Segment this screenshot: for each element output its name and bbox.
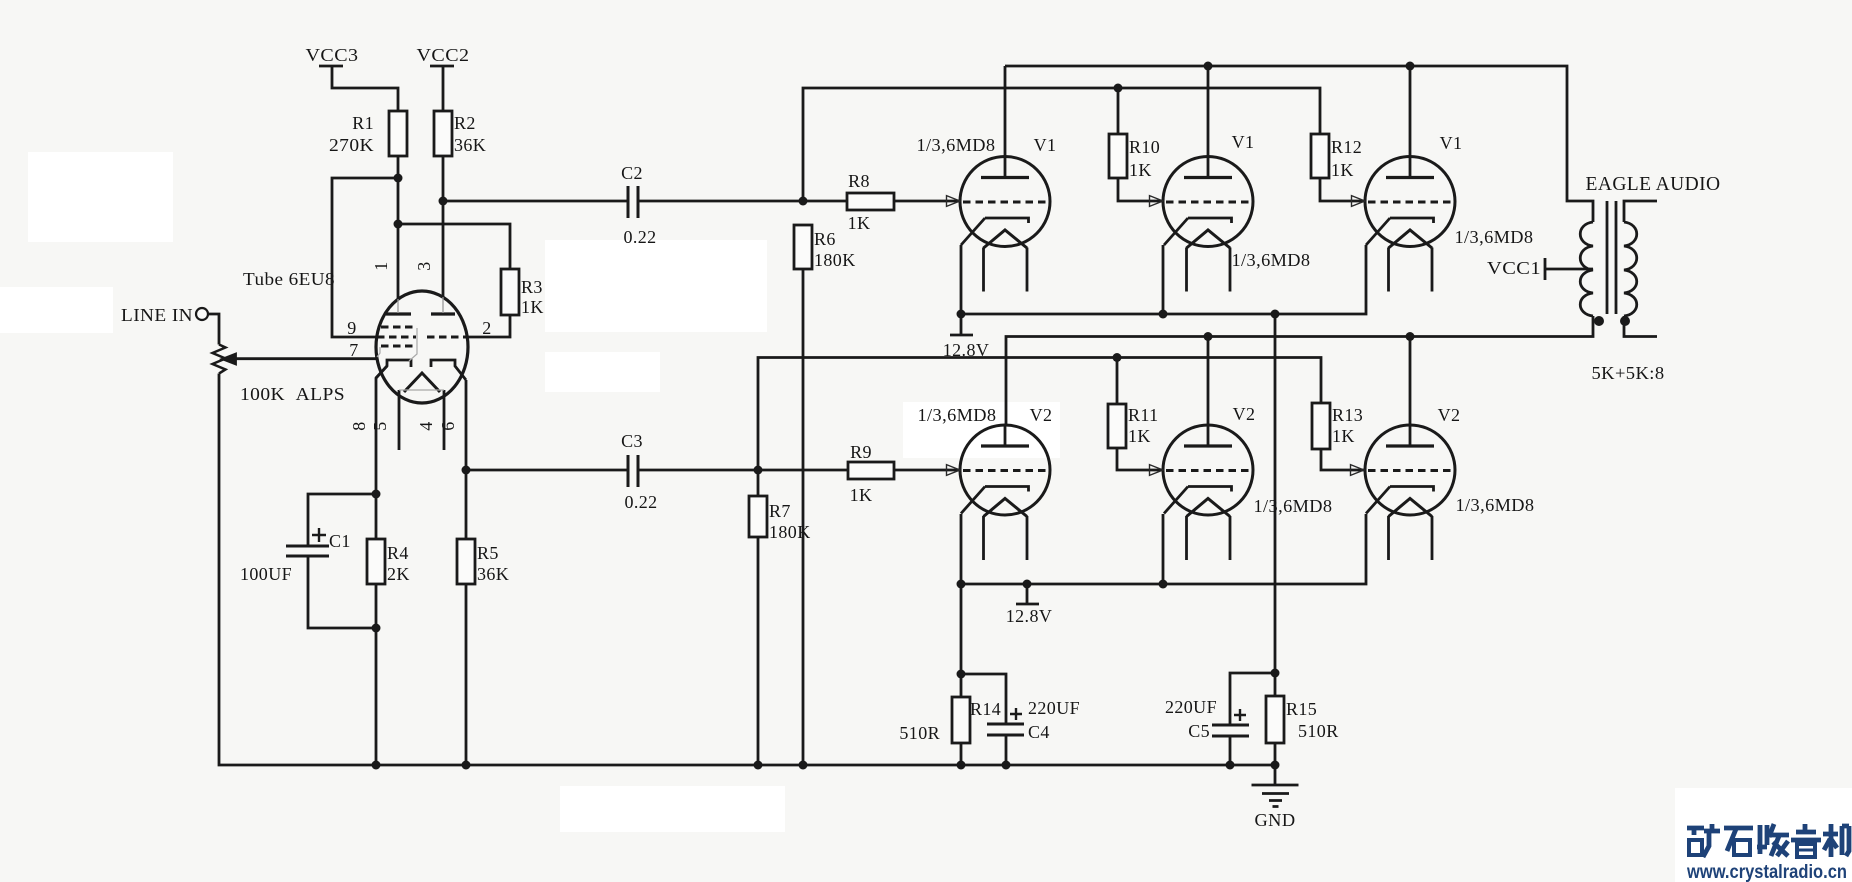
svg-text:R2: R2 bbox=[454, 113, 476, 133]
svg-text:5K+5K:8: 5K+5K:8 bbox=[1592, 363, 1665, 383]
watermark char kuang bbox=[1687, 828, 1704, 835]
svg-text:V2: V2 bbox=[1438, 405, 1461, 425]
wire V2b plate bbox=[1207, 337, 1210, 426]
wire C3 line bbox=[466, 469, 848, 472]
capacitor C1 plates bbox=[286, 546, 329, 556]
6EU8 pentode grid dashes bbox=[377, 327, 416, 346]
wire top grid bus bbox=[803, 88, 1320, 201]
svg-text:R1: R1 bbox=[352, 113, 374, 133]
svg-text:EAGLE AUDIO: EAGLE AUDIO bbox=[1586, 174, 1721, 195]
wire pin 8 to R4 bbox=[376, 366, 387, 494]
svg-text:12.8V: 12.8V bbox=[943, 340, 990, 360]
capacitor C4 plates bbox=[987, 724, 1024, 735]
grid arrow V2b bbox=[1150, 465, 1164, 476]
resistor R10 bbox=[1109, 134, 1127, 178]
svg-text:www.crystalradio.cn: www.crystalradio.cn bbox=[1686, 861, 1847, 882]
LINE IN terminal bbox=[196, 308, 208, 320]
svg-text:R7: R7 bbox=[769, 501, 791, 521]
resistor R14 bbox=[952, 697, 970, 743]
svg-text:R12: R12 bbox=[1331, 137, 1362, 157]
wire C2 line bbox=[443, 200, 803, 203]
wire bottom cathode bus to R14/C4 node bbox=[960, 584, 963, 674]
svg-text:100UF: 100UF bbox=[240, 564, 292, 584]
potentiometer wiper arrow bbox=[223, 354, 236, 364]
svg-text:GND: GND bbox=[1255, 810, 1296, 830]
svg-text:1/3,6MD8: 1/3,6MD8 bbox=[1254, 496, 1333, 516]
grid arrow V1b bbox=[1150, 196, 1164, 207]
wire top plate bus to transformer bbox=[1005, 66, 1593, 222]
C5 plus sign bbox=[1234, 709, 1246, 721]
wire R8 leads bbox=[803, 200, 960, 203]
svg-text:36K: 36K bbox=[477, 564, 509, 584]
svg-text:C5: C5 bbox=[1188, 721, 1210, 741]
wire R15 leads bbox=[1274, 673, 1277, 765]
wire potentiometer bottom + ground bus bbox=[219, 374, 1275, 766]
transformer primary winding bbox=[1580, 222, 1593, 316]
wire R6 bottom to ground bus bbox=[802, 269, 805, 765]
svg-text:510R: 510R bbox=[1298, 721, 1339, 741]
power symbol VCC3 bbox=[319, 66, 398, 111]
svg-text:180K: 180K bbox=[814, 250, 856, 270]
svg-text:C2: C2 bbox=[621, 163, 643, 183]
svg-text:1/3,6MD8: 1/3,6MD8 bbox=[918, 405, 997, 425]
tube V2b bbox=[1163, 425, 1253, 560]
resistor R6 bbox=[794, 225, 812, 269]
svg-text:R4: R4 bbox=[387, 543, 409, 563]
svg-text:V1: V1 bbox=[1034, 135, 1057, 155]
transformer core bbox=[1607, 201, 1616, 314]
svg-text:V2: V2 bbox=[1233, 404, 1256, 424]
svg-text:1K: 1K bbox=[1129, 160, 1152, 180]
resistor R5 bbox=[457, 539, 475, 584]
capacitor C4 leads bbox=[961, 674, 1006, 765]
resistor R13 bbox=[1312, 403, 1330, 449]
wire R2 bottom / pin 3 bbox=[442, 156, 445, 298]
svg-text:1K: 1K bbox=[848, 213, 871, 233]
svg-text:VCC3: VCC3 bbox=[306, 45, 359, 65]
svg-text:220UF: 220UF bbox=[1165, 697, 1217, 717]
svg-text:R6: R6 bbox=[814, 229, 836, 249]
transformer phase dot secondary bbox=[1620, 316, 1630, 326]
wire R5 leads bbox=[465, 470, 468, 765]
6EU8 triode grid dashes bbox=[427, 336, 467, 339]
resistor R2 bbox=[434, 111, 452, 156]
svg-text:V1: V1 bbox=[1232, 132, 1255, 152]
svg-text:1K: 1K bbox=[1331, 160, 1354, 180]
svg-text:LINE IN: LINE IN bbox=[121, 305, 193, 325]
6EU8 plate bars bbox=[386, 312, 455, 315]
wire bottom grid bus bbox=[758, 358, 1321, 471]
capacitor C2 bbox=[628, 186, 638, 218]
watermark char shi bbox=[1724, 828, 1753, 851]
resistor R1 bbox=[389, 111, 407, 156]
svg-text:VCC1: VCC1 bbox=[1487, 258, 1541, 278]
C4 plus sign bbox=[1010, 708, 1022, 720]
wire R10 top bbox=[1117, 88, 1120, 134]
svg-text:1/3,6MD8: 1/3,6MD8 bbox=[917, 135, 996, 155]
resistor R15 bbox=[1266, 696, 1284, 743]
tube V2a bbox=[960, 425, 1050, 560]
resistor R4 bbox=[367, 539, 385, 584]
wire R4 leads bbox=[375, 494, 378, 765]
svg-text:R10: R10 bbox=[1129, 137, 1160, 157]
wire R13 to V2c grid bbox=[1321, 449, 1364, 470]
svg-text:12.8V: 12.8V bbox=[1006, 606, 1053, 626]
svg-text:C4: C4 bbox=[1028, 722, 1050, 742]
svg-text:1: 1 bbox=[371, 261, 391, 270]
svg-text:1/3,6MD8: 1/3,6MD8 bbox=[1456, 495, 1535, 515]
transformer phase dot primary bbox=[1594, 316, 1604, 326]
wire bottom cathode bus bbox=[961, 514, 1366, 584]
wire R14 leads bbox=[960, 674, 963, 765]
svg-text:1/3,6MD8: 1/3,6MD8 bbox=[1455, 227, 1534, 247]
wire V1b plate bbox=[1207, 66, 1210, 157]
svg-text:2: 2 bbox=[482, 318, 491, 338]
svg-text:36K: 36K bbox=[454, 135, 486, 155]
power symbol 12.8V top bbox=[950, 314, 973, 335]
resistor R7 bbox=[749, 496, 767, 537]
tube V1a bbox=[960, 157, 1050, 292]
wire R11 top bbox=[1116, 358, 1119, 405]
svg-text:0.22: 0.22 bbox=[624, 492, 657, 512]
svg-text:2K: 2K bbox=[387, 564, 410, 584]
capacitor C5 plates bbox=[1212, 725, 1249, 736]
svg-text:R15: R15 bbox=[1286, 699, 1317, 719]
resistor R9 bbox=[848, 462, 894, 479]
resistor R11 bbox=[1108, 404, 1126, 448]
svg-text:1K: 1K bbox=[1332, 426, 1355, 446]
wire V1a plate bbox=[1004, 66, 1007, 157]
svg-text:V2: V2 bbox=[1030, 405, 1053, 425]
wire secondary bottom lead bbox=[1624, 316, 1657, 337]
power symbol VCC1 terminal bbox=[1545, 258, 1593, 280]
wire secondary top lead bbox=[1624, 201, 1657, 222]
resistor R12 bbox=[1311, 134, 1329, 178]
watermark char yin bbox=[1791, 824, 1821, 840]
grid arrow V2c bbox=[1351, 465, 1365, 476]
potentiometer 100K ALPS zigzag bbox=[213, 345, 226, 374]
wire V2c plate bbox=[1409, 337, 1412, 426]
wire R1 bottom to node and pin1 bbox=[397, 156, 400, 300]
svg-text:V1: V1 bbox=[1440, 133, 1463, 153]
svg-text:R14: R14 bbox=[970, 699, 1001, 719]
watermark char ji bbox=[1823, 824, 1838, 857]
wire R7 leads bbox=[757, 470, 760, 765]
6EU8 internal plate leads bbox=[398, 297, 443, 313]
watermark char shou bbox=[1757, 825, 1767, 854]
svg-text:R5: R5 bbox=[477, 543, 499, 563]
svg-text:R9: R9 bbox=[850, 442, 872, 462]
svg-text:VCC2: VCC2 bbox=[417, 45, 470, 65]
tube V2c bbox=[1365, 425, 1455, 560]
svg-text:R13: R13 bbox=[1332, 405, 1363, 425]
svg-text:220UF: 220UF bbox=[1028, 698, 1080, 718]
svg-text:1K: 1K bbox=[850, 485, 873, 505]
6EU8 heater bbox=[404, 373, 440, 392]
capacitor C3 bbox=[628, 455, 638, 487]
svg-text:4: 4 bbox=[416, 421, 436, 430]
wire pin 6 to R5 / C3 node bbox=[465, 380, 468, 470]
wire node to R3 and pin 2 bbox=[398, 224, 510, 337]
tube 6EU8 envelope bbox=[376, 291, 468, 403]
svg-text:R3: R3 bbox=[521, 277, 543, 297]
svg-text:6: 6 bbox=[438, 421, 458, 430]
wire LINE IN to potentiometer bbox=[209, 314, 220, 345]
6EU8 triode cathode bbox=[431, 360, 466, 380]
svg-text:R11: R11 bbox=[1128, 405, 1159, 425]
capacitor C1 leads bbox=[308, 494, 376, 628]
svg-text:100K ALPS: 100K ALPS bbox=[240, 384, 345, 404]
tube V1b bbox=[1163, 157, 1253, 292]
grid arrow V1a bbox=[947, 196, 961, 207]
power symbol 12.8V bottom bbox=[1016, 584, 1039, 604]
resistor R8 bbox=[847, 193, 894, 210]
watermark logo crystalradio bbox=[1687, 824, 1849, 857]
wire node to pin 9 bbox=[332, 178, 398, 337]
svg-text:1/3,6MD8: 1/3,6MD8 bbox=[1232, 250, 1311, 270]
svg-text:1K: 1K bbox=[521, 297, 544, 317]
svg-text:5: 5 bbox=[370, 421, 390, 430]
C1 plus sign bbox=[312, 528, 326, 542]
wire R10 to V1b grid bbox=[1118, 178, 1163, 201]
svg-text:0.22: 0.22 bbox=[623, 227, 656, 247]
svg-text:510R: 510R bbox=[899, 723, 940, 743]
svg-text:8: 8 bbox=[349, 421, 369, 430]
wire wiper to pin 7 bbox=[234, 357, 377, 360]
svg-text:180K: 180K bbox=[769, 522, 811, 542]
wire R12 to V1c grid bbox=[1320, 178, 1365, 201]
6EU8 internal gray structure bbox=[377, 328, 444, 390]
svg-text:7: 7 bbox=[349, 340, 358, 360]
grid arrow V1c bbox=[1352, 196, 1366, 207]
grid arrow V2a bbox=[947, 465, 961, 476]
wire R9 to V2a grid bbox=[894, 469, 960, 472]
svg-text:9: 9 bbox=[347, 318, 356, 338]
svg-text:C3: C3 bbox=[621, 431, 643, 451]
power symbol VCC2 bbox=[430, 66, 454, 111]
capacitor C5 leads bbox=[1230, 673, 1275, 765]
wire R11 to V2b grid bbox=[1117, 448, 1163, 470]
resistor R3 bbox=[501, 269, 519, 315]
svg-text:Tube 6EU8: Tube 6EU8 bbox=[243, 269, 335, 289]
wire bottom plate bus to transformer bbox=[1006, 316, 1593, 425]
wire top cathode bus 12.8V bbox=[961, 245, 1366, 314]
svg-text:R8: R8 bbox=[848, 171, 870, 191]
tube V1c bbox=[1365, 157, 1455, 292]
wire top cathode to R15 node bbox=[1274, 314, 1277, 673]
wire V1c plate bbox=[1409, 66, 1412, 157]
svg-text:C1: C1 bbox=[329, 531, 351, 551]
ground symbol GND bbox=[1252, 765, 1299, 807]
svg-text:270K: 270K bbox=[329, 135, 374, 155]
6EU8 pentode cathode bbox=[376, 360, 411, 378]
transformer secondary winding bbox=[1624, 222, 1637, 316]
svg-text:1K: 1K bbox=[1128, 426, 1151, 446]
6EU8 heater pins 5 and 4 bbox=[399, 390, 444, 450]
svg-text:3: 3 bbox=[414, 261, 434, 270]
